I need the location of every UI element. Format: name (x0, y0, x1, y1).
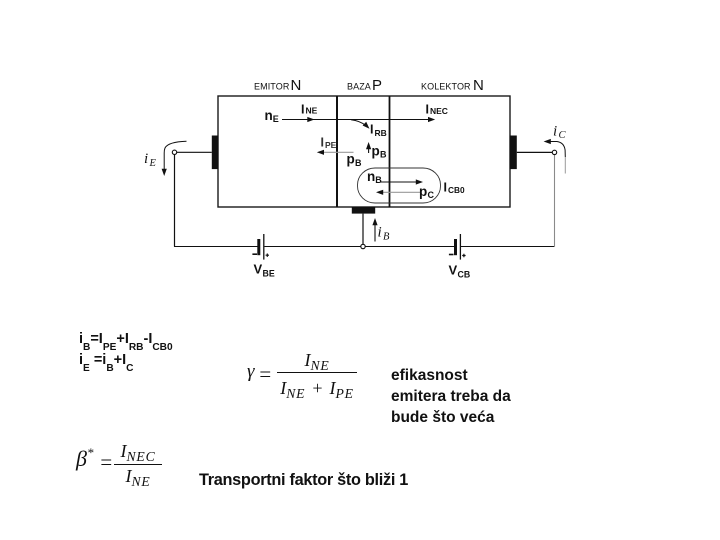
base contact (352, 207, 375, 214)
text efikasnost emitera treba da bude sto veca (391, 366, 511, 429)
label INE (301, 102, 318, 116)
battery VBE (252, 234, 269, 260)
svg-text:I: I (370, 123, 373, 137)
svg-text:p: p (347, 152, 355, 167)
hole current arrow IPE (317, 150, 354, 155)
hole arrow pC (376, 190, 420, 195)
wire collector down (554, 155, 556, 247)
svg-text:p: p (419, 184, 427, 199)
svg-text:B: B (380, 150, 387, 160)
wire base down (362, 214, 364, 245)
label IRB (370, 123, 387, 139)
text transportni faktor (199, 471, 408, 490)
label KOLEKTOR N (421, 77, 484, 94)
current arrow iE (162, 141, 187, 176)
svg-text:E: E (273, 114, 279, 124)
wire emitter down (174, 155, 176, 247)
svg-text:I: I (301, 102, 304, 116)
svg-text:I: I (426, 103, 429, 117)
label iE (144, 151, 157, 169)
label iB (378, 225, 391, 243)
label VBE (254, 262, 275, 279)
svg-text:B: B (355, 158, 362, 168)
svg-text:CB0: CB0 (448, 185, 465, 195)
label pB left (347, 152, 363, 168)
label IPE (321, 136, 337, 150)
svg-text:C: C (428, 190, 435, 200)
formula beta* = INEC / INE (76, 446, 93, 472)
wire bottom middle right (365, 246, 454, 248)
svg-text:i: i (553, 124, 557, 140)
svg-text:N: N (473, 77, 484, 94)
wire emitter lead (177, 151, 212, 153)
electron arrow nB (380, 179, 423, 184)
svg-text:KOLEKTOR: KOLEKTOR (421, 82, 471, 92)
svg-text:EMITOR: EMITOR (254, 82, 290, 92)
node base terminal (361, 244, 365, 248)
label iC (553, 124, 567, 142)
wire bottom right (461, 246, 555, 248)
svg-text:P: P (372, 77, 382, 94)
svg-text:BAZA: BAZA (347, 82, 371, 92)
svg-text:PE: PE (325, 140, 337, 150)
recombination current arrow IRB (351, 120, 370, 129)
svg-text:NE: NE (306, 106, 318, 116)
label BAZA P (347, 77, 382, 94)
wire bottom left (174, 246, 258, 248)
svg-text:CB: CB (458, 270, 471, 280)
node emitter terminal (172, 150, 176, 154)
label EMITOR N (254, 77, 301, 94)
base hole supply arrow pB (366, 142, 371, 153)
reverse saturation loop oval (358, 168, 441, 203)
electron current arrow INE to INEC (282, 117, 435, 122)
label INEC (426, 103, 448, 117)
svg-text:p: p (372, 143, 380, 158)
svg-text:n: n (265, 108, 273, 123)
svg-text:I: I (444, 181, 447, 195)
svg-text:I: I (321, 136, 324, 150)
svg-text:i: i (378, 225, 382, 241)
base-collector junction line (389, 96, 391, 207)
svg-text:E: E (149, 158, 157, 169)
wire bottom middle (265, 246, 361, 248)
svg-text:V: V (449, 263, 458, 278)
svg-text:B: B (375, 175, 382, 185)
svg-text:BE: BE (263, 269, 275, 279)
svg-text:N: N (291, 77, 302, 94)
emitter-base junction line (336, 96, 338, 207)
svg-text:C: C (559, 130, 567, 141)
svg-text:NEC: NEC (430, 106, 448, 116)
collector contact (510, 136, 517, 170)
node collector terminal (552, 150, 556, 154)
label pC (419, 184, 435, 200)
label nB (367, 169, 382, 185)
svg-text:B: B (383, 232, 390, 243)
label pB right (372, 143, 388, 159)
svg-text:RB: RB (375, 128, 387, 138)
battery VCB (449, 234, 466, 260)
emitter contact (212, 136, 219, 170)
equation iB = IPE + IRB - ICB0 ; iE = iB + IC (79, 329, 173, 371)
current arrow iB (372, 218, 377, 242)
svg-text:V: V (254, 262, 263, 277)
current arrow iC (544, 139, 566, 174)
svg-text:i: i (144, 151, 148, 167)
wire collector lead (517, 151, 553, 153)
label ICB0 (444, 181, 465, 196)
svg-text:n: n (367, 169, 375, 184)
transistor body outline (218, 96, 510, 207)
formula gamma = INE / (INE + IPE) (247, 361, 255, 383)
label VCB (449, 263, 471, 280)
label nE (265, 108, 279, 124)
